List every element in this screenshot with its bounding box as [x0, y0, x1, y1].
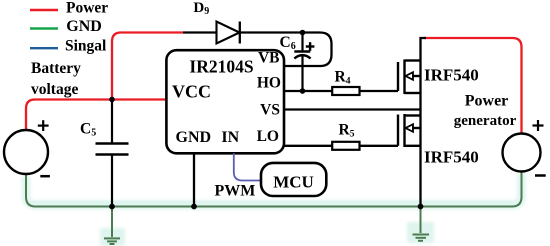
svg-text:IN: IN [221, 129, 239, 146]
svg-text:Power: Power [66, 0, 108, 17]
svg-text:Singal: Singal [65, 37, 107, 54]
svg-text:VCC: VCC [172, 82, 211, 102]
svg-text:MCU: MCU [273, 172, 314, 191]
svg-text:D9: D9 [193, 0, 209, 17]
svg-text:C5: C5 [80, 121, 96, 139]
svg-text:HO: HO [257, 75, 281, 92]
svg-text:Battery: Battery [31, 60, 81, 77]
svg-text:Power: Power [465, 93, 509, 110]
svg-text:IRF540: IRF540 [424, 148, 479, 167]
svg-text:R5: R5 [339, 122, 355, 140]
svg-text:GND: GND [176, 129, 212, 146]
svg-text:IR2104S: IR2104S [189, 57, 253, 77]
svg-text:C6: C6 [280, 34, 296, 52]
svg-text:VS: VS [260, 102, 280, 119]
svg-text:voltage: voltage [31, 81, 78, 98]
svg-text:generator: generator [454, 113, 517, 129]
svg-text:LO: LO [257, 128, 279, 145]
svg-text:GND: GND [66, 18, 102, 35]
svg-text:PWM: PWM [215, 183, 256, 200]
svg-text:IRF540: IRF540 [424, 66, 479, 85]
svg-text:VB: VB [258, 50, 280, 67]
svg-text:R4: R4 [335, 69, 351, 87]
